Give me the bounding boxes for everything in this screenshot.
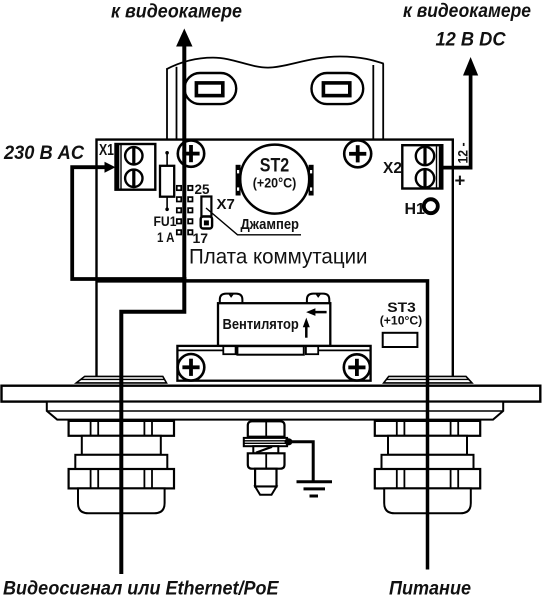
svg-text:1 A: 1 A [157,229,175,245]
cable gland right [375,421,480,513]
svg-text:X1: X1 [99,142,114,159]
svg-text:ST2: ST2 [260,156,290,177]
fuse FU1 [160,151,174,211]
fan compartment box (top edge + right edge continuing as power cable) [97,281,428,570]
ground wire [292,442,313,481]
svg-text:Джампер: Джампер [241,217,300,233]
thermostat ST3 [383,333,418,347]
mounting plate layer 2 [47,402,503,420]
pedestal right [384,376,472,383]
fan body [218,294,330,346]
svg-text:к видеокамере: к видеокамере [403,1,531,22]
jumper X7 [201,197,212,229]
bracket slot left (stadium + inner rect) [185,73,237,104]
svg-text:к видеокамере: к видеокамере [111,1,242,22]
fan mounting bracket [177,346,370,381]
fan airflow arrow left [306,308,327,316]
leader line to Джампер [206,208,301,235]
ground symbol [297,482,333,496]
bracket slot right (stadium + inner rect) [312,73,364,104]
svg-text:25: 25 [195,182,211,197]
bracket wavy top edge [166,57,383,70]
svg-text:Вентилятор: Вентилятор [223,316,299,333]
camera mount bracket sides [167,64,383,139]
camera cable (thick) with jog to left gland [121,45,184,575]
svg-text:FU1: FU1 [154,213,177,229]
svg-text:+: + [455,170,466,191]
230V AC wire [72,167,186,279]
svg-text:12 В DC: 12 В DC [436,30,506,51]
svg-text:(+20°C): (+20°C) [253,175,297,191]
fan airflow arrow up [303,318,310,338]
svg-text:230 В AC: 230 В AC [3,142,85,164]
ground bolt [244,421,293,495]
bracket screw right [344,354,370,380]
svg-text:X2: X2 [383,160,402,177]
230V AC arrowhead [105,162,116,173]
svg-text:Видеосигнал или Ethernet/PoE: Видеосигнал или Ethernet/PoE [3,578,279,600]
svg-text:Питание: Питание [389,578,471,600]
terminal block X2 [402,145,442,188]
board screw top-left [178,140,204,166]
svg-text:ST3: ST3 [387,300,416,315]
cable gland left [69,421,174,513]
svg-text:X7: X7 [217,196,235,213]
svg-text:H1: H1 [405,201,426,218]
LED H1 [424,199,438,213]
connector pin field (2x5 dots) [177,186,193,235]
12V DC wire [442,75,471,168]
camera cable arrowhead [176,29,192,47]
svg-text:17: 17 [193,230,209,246]
bracket screw left [178,354,205,381]
12V DC arrowhead [463,57,478,76]
svg-text:Плата коммутации: Плата коммутации [189,246,368,269]
thermostat ST2 [236,145,314,214]
mounting plate layer 1 [2,386,541,402]
board screw top-right [344,140,371,167]
terminal block X1 [116,144,156,190]
commutation board outline [97,140,453,377]
svg-text:12 -: 12 - [456,143,471,164]
pedestal left [76,376,166,383]
svg-text:(+10°C): (+10°C) [380,316,423,328]
